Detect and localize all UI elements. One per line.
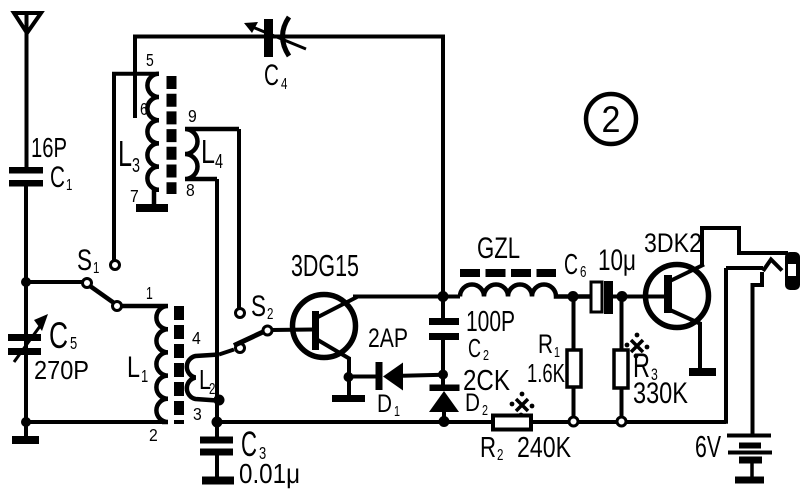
- svg-text:S: S: [251, 289, 266, 323]
- svg-text:1: 1: [554, 343, 560, 360]
- svg-text:C: C: [468, 334, 481, 363]
- svg-text:2: 2: [149, 425, 158, 445]
- svg-text:1: 1: [394, 402, 400, 419]
- svg-text:GZL: GZL: [477, 231, 520, 265]
- svg-text:L: L: [127, 350, 140, 383]
- svg-text:3: 3: [259, 444, 266, 464]
- svg-text:1: 1: [141, 367, 148, 387]
- svg-text:R: R: [480, 432, 496, 463]
- svg-text:10μ: 10μ: [598, 243, 636, 277]
- svg-text:D: D: [465, 388, 480, 416]
- svg-text:2: 2: [497, 445, 504, 463]
- svg-text:C: C: [50, 161, 65, 194]
- svg-text:6V: 6V: [695, 429, 721, 464]
- svg-text:3: 3: [132, 154, 140, 177]
- svg-text:6: 6: [580, 262, 587, 280]
- svg-text:D: D: [377, 389, 392, 417]
- svg-text:3: 3: [193, 404, 202, 424]
- svg-text:C: C: [49, 315, 68, 356]
- svg-text:L: L: [118, 134, 132, 175]
- svg-text:1: 1: [146, 284, 153, 304]
- svg-text:1.6K: 1.6K: [527, 359, 565, 388]
- svg-text:5: 5: [146, 50, 154, 70]
- svg-text:2: 2: [482, 401, 488, 418]
- svg-text:240K: 240K: [517, 430, 571, 463]
- svg-text:3DK2: 3DK2: [644, 228, 702, 258]
- svg-text:2: 2: [209, 379, 216, 397]
- svg-text:R: R: [538, 329, 553, 359]
- svg-text:2: 2: [483, 346, 489, 363]
- svg-text:6: 6: [140, 99, 148, 119]
- svg-text:L: L: [201, 134, 215, 171]
- svg-text:S: S: [77, 243, 92, 277]
- svg-text:330K: 330K: [633, 376, 688, 409]
- svg-text:270P: 270P: [34, 357, 89, 385]
- svg-text:3: 3: [651, 366, 658, 384]
- svg-text:9: 9: [188, 106, 197, 126]
- svg-text:0.01μ: 0.01μ: [239, 457, 300, 489]
- svg-text:16P: 16P: [31, 133, 67, 164]
- svg-text:8: 8: [186, 180, 195, 200]
- svg-text:5: 5: [70, 334, 77, 354]
- svg-text:4: 4: [281, 74, 288, 92]
- svg-text:3DG15: 3DG15: [291, 248, 359, 283]
- svg-text:4: 4: [215, 150, 223, 173]
- svg-text:C: C: [564, 249, 578, 281]
- svg-text:2AP: 2AP: [368, 324, 408, 354]
- svg-text:C: C: [264, 59, 279, 92]
- svg-text:1: 1: [66, 175, 73, 193]
- svg-text:1: 1: [93, 258, 100, 276]
- svg-text:2: 2: [267, 304, 274, 322]
- svg-text:7: 7: [130, 186, 139, 206]
- svg-text:4: 4: [192, 328, 201, 348]
- svg-text:2: 2: [602, 99, 621, 141]
